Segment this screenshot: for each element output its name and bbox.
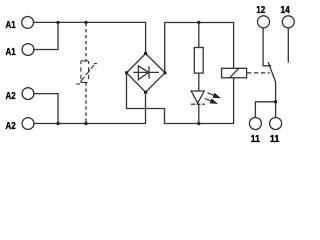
- resistor R1 body: [194, 48, 203, 74]
- wire bridge right vertex to positive rail and relay coil: [165, 23, 234, 73]
- svg-text:11: 11: [251, 134, 261, 145]
- junction dot 11 bar / blade: [274, 100, 277, 103]
- svg-text:14: 14: [281, 5, 291, 16]
- terminal 12: [258, 16, 270, 28]
- LED light arrow (upper): [208, 93, 214, 95]
- varistor RU dashed body: [81, 61, 88, 83]
- LED cathode bar: [191, 103, 205, 105]
- wire 11 terminals joining bar: [255, 102, 275, 118]
- varistor RU diagonal with tails: [76, 64, 97, 84]
- varistor RU dashed top lead: [85, 23, 87, 61]
- wire A1 top rail to bridge top vertex: [34, 22, 146, 53]
- svg-text:11: 11: [270, 134, 280, 145]
- wire LED cathode to negative rail: [198, 104, 200, 124]
- terminal A2 (lower): [22, 118, 34, 130]
- svg-text:A2: A2: [6, 91, 17, 102]
- junction dot varistor bottom: [84, 122, 87, 125]
- terminal A2 (upper): [22, 88, 34, 100]
- bridge rectifier diamond: [127, 54, 166, 93]
- bridge top vertex dot: [144, 52, 147, 55]
- junction dot LED cathode / negative rail: [197, 122, 200, 125]
- junction dot upper-A2 / bottom rail: [56, 122, 59, 125]
- bridge inner diode lead: [133, 71, 159, 73]
- wire bridge left vertex to negative rail: [127, 73, 234, 124]
- svg-text:A2: A2: [6, 121, 17, 132]
- LED light arrow (lower): [205, 99, 211, 101]
- LED triangle: [191, 91, 204, 103]
- terminal 14: [282, 16, 294, 28]
- wire terminal 12 down to NC fixed contact (L-shape): [263, 28, 271, 66]
- relay coil diagonal: [230, 68, 239, 78]
- wire positive rail down to resistor: [198, 23, 200, 48]
- varistor RU dashed bottom lead: [85, 82, 87, 123]
- bridge right vertex dot: [163, 71, 166, 74]
- relay coil K1 body: [222, 68, 247, 78]
- terminal 11 (left): [249, 118, 261, 130]
- contact blade (common): [268, 62, 275, 102]
- junction dot resistor / positive rail: [197, 21, 200, 24]
- svg-text:A1: A1: [6, 20, 17, 31]
- wire resistor to LED anode: [198, 73, 200, 91]
- terminal 11 (right): [270, 118, 282, 130]
- svg-text:A1: A1: [6, 47, 17, 58]
- dashed mechanical linkage coil to contact: [247, 72, 270, 74]
- wire from lower A1 up to top rail: [34, 22, 58, 49]
- wire terminal 14 down to NO fixed contact: [287, 28, 289, 63]
- wire A2 bottom rail to bridge bottom vertex: [34, 92, 146, 123]
- bridge bottom vertex dot: [144, 91, 147, 94]
- junction dot varistor top: [84, 21, 87, 24]
- bridge left vertex dot: [125, 71, 128, 74]
- terminal A1 (lower): [22, 44, 34, 56]
- terminal A1 (upper): [22, 17, 34, 29]
- bridge inner diode cathode bar: [148, 66, 150, 78]
- wire from upper A2 down to bottom rail: [34, 94, 58, 124]
- bridge inner diode triangle: [138, 66, 148, 80]
- junction dot lower-A1 / top rail: [56, 21, 59, 24]
- svg-text:12: 12: [256, 5, 265, 16]
